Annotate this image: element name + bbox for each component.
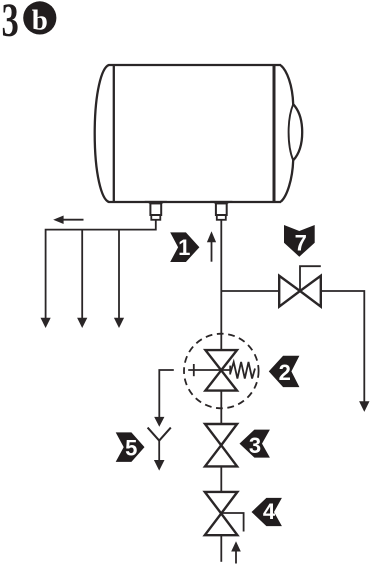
- svg-text:3: 3: [249, 433, 261, 458]
- svg-text:b: b: [32, 4, 48, 36]
- svg-text:1: 1: [178, 235, 190, 260]
- svg-text:2: 2: [279, 360, 291, 385]
- svg-text:5: 5: [125, 436, 137, 461]
- svg-text:3: 3: [2, 0, 19, 47]
- svg-text:7: 7: [295, 231, 307, 256]
- svg-text:4: 4: [263, 499, 276, 524]
